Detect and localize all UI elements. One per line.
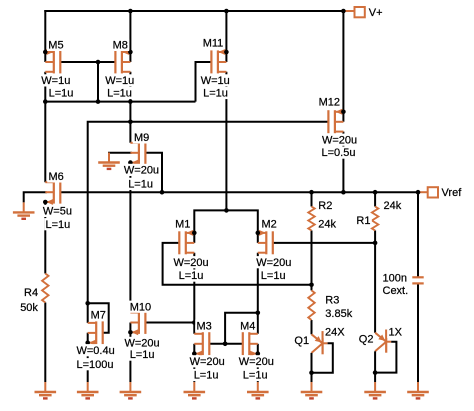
transistor M10 <box>130 311 145 335</box>
svg-text:M10: M10 <box>130 301 151 313</box>
transistor M1 <box>179 230 194 254</box>
wire M9 source <box>129 163 131 313</box>
svg-text:L=1u: L=1u <box>46 219 71 231</box>
wire M6 drain <box>44 102 46 183</box>
label M1 W/L <box>172 256 210 282</box>
svg-text:M5: M5 <box>48 40 63 52</box>
junction tail <box>224 208 229 213</box>
svg-text:W=20u: W=20u <box>190 356 225 368</box>
wire M10 tie <box>129 323 131 333</box>
svg-text:L=1u: L=1u <box>49 88 74 100</box>
label M12 <box>317 96 341 109</box>
wire M12 source <box>342 11 344 122</box>
wire M6 bulk <box>24 192 47 202</box>
svg-text:1X: 1X <box>389 327 403 339</box>
svg-text:Cext.: Cext. <box>383 285 409 297</box>
transistor M2 <box>258 230 273 254</box>
svg-text:R4: R4 <box>24 287 38 299</box>
junction wire1 tap <box>96 99 101 104</box>
label M10 W/L <box>123 337 161 361</box>
svg-text:M11: M11 <box>203 38 224 50</box>
wire M9 gate <box>145 153 162 192</box>
wire M5-M8 gates <box>60 61 115 63</box>
svg-text:W=20u: W=20u <box>125 338 160 350</box>
svg-text:M9: M9 <box>134 132 149 144</box>
junction wire1 M8 <box>128 99 133 104</box>
wire M2 gate <box>273 242 375 244</box>
svg-text:Vref: Vref <box>442 187 463 199</box>
junction M10 gate <box>192 320 197 325</box>
junction M9 source <box>128 160 133 165</box>
resistor R4 <box>42 274 48 303</box>
label M6 <box>47 170 65 183</box>
label M7 W/L <box>75 344 116 371</box>
label M5 W/L <box>40 74 75 99</box>
junction Vref R1 <box>373 190 378 195</box>
junction wire1 M5 <box>43 99 48 104</box>
wire M4 source <box>257 354 259 382</box>
transistor M4 <box>243 332 258 356</box>
transistor M5 <box>45 49 60 73</box>
wire M11 drain / tail <box>225 72 227 211</box>
label M6 W/L <box>42 205 74 231</box>
ground M6 bulk <box>13 202 35 218</box>
label Cext <box>381 272 409 297</box>
ground M4 <box>247 382 269 398</box>
ground R4 <box>35 382 57 398</box>
svg-text:M1: M1 <box>175 219 190 231</box>
terminal V+ <box>343 7 364 17</box>
wire M3-M4 gates link <box>225 313 258 344</box>
svg-text:3.85k: 3.85k <box>325 308 352 320</box>
ground Cext <box>407 382 429 398</box>
junction M6 source <box>43 200 48 205</box>
label M5 <box>47 39 65 52</box>
wire M5 drain <box>44 72 46 102</box>
junction M2 gate R1 <box>373 241 378 246</box>
junction M8 source <box>128 50 133 55</box>
svg-text:L=1u: L=1u <box>130 349 155 361</box>
wire M4 gate <box>225 343 243 345</box>
junction M10 source <box>128 330 133 335</box>
wire M7 gate loop <box>88 303 109 332</box>
svg-text:L=0.5u: L=0.5u <box>322 147 356 159</box>
junction M11 source <box>224 50 229 55</box>
label Vref <box>442 187 463 199</box>
svg-text:L=1u: L=1u <box>194 370 219 382</box>
terminal Vref <box>418 187 438 197</box>
wire Cext bottom <box>417 283 419 382</box>
svg-text:M2: M2 <box>262 219 277 231</box>
label M10 <box>128 301 152 314</box>
wire M7 tie <box>87 333 89 343</box>
wire R4 bottom <box>44 303 46 383</box>
wire M1 gate <box>163 243 312 285</box>
svg-text:W=20u: W=20u <box>239 356 274 368</box>
svg-text:W=1u: W=1u <box>105 75 134 87</box>
label M9 W/L <box>123 164 161 191</box>
label M3 W/L <box>188 355 226 381</box>
ground M10 <box>120 382 142 398</box>
svg-text:100n: 100n <box>383 273 407 285</box>
transistor M11 <box>211 49 226 73</box>
wire tail / M1 M2 sources <box>194 210 257 243</box>
wire M10 source <box>129 332 131 382</box>
svg-text:L=1u: L=1u <box>261 270 286 282</box>
junction M8 source rail <box>128 9 133 14</box>
ground M3 <box>184 382 206 398</box>
wire M9 bulk <box>109 153 132 155</box>
svg-text:W=0.4u: W=0.4u <box>77 345 115 357</box>
wire R1-Q2 <box>374 231 376 333</box>
resistor R2 <box>308 207 314 231</box>
wire Q2 ground <box>374 373 376 382</box>
junction M1 gate R3 <box>309 283 314 288</box>
ground Q2 <box>364 382 386 398</box>
svg-text:M6: M6 <box>49 171 64 183</box>
wire M11 source <box>225 11 227 62</box>
junction wire2 M9 <box>128 120 133 125</box>
wire M3 source <box>193 354 195 382</box>
wire Q1 ground <box>311 373 313 382</box>
wire M7 source <box>87 343 89 382</box>
svg-text:L=1u: L=1u <box>107 88 132 100</box>
label R2 <box>317 199 337 230</box>
junction M1 source <box>192 231 197 236</box>
svg-text:L=1u: L=1u <box>243 370 268 382</box>
svg-text:Q1: Q1 <box>294 335 309 347</box>
wire R3-Q1 <box>311 320 313 334</box>
svg-text:R1: R1 <box>356 215 370 227</box>
label M9 <box>133 131 151 144</box>
label M2 <box>260 218 278 231</box>
junction M11 source rail <box>224 9 229 14</box>
wire M1 drain <box>193 253 195 334</box>
svg-text:M4: M4 <box>240 320 255 332</box>
svg-text:24k: 24k <box>318 219 336 231</box>
junction Vref M9 gate <box>160 190 165 195</box>
wire R2 top <box>311 192 313 206</box>
junction M7 source <box>85 340 90 345</box>
junction M3-M4 gates <box>223 342 228 347</box>
junction V+ rail <box>341 9 346 14</box>
svg-text:W=20u: W=20u <box>322 134 357 146</box>
svg-text:W=20u: W=20u <box>124 165 159 177</box>
svg-text:M12: M12 <box>319 96 340 108</box>
wire M4 tie <box>257 344 259 354</box>
svg-text:W=5u: W=5u <box>43 206 72 218</box>
svg-text:W=20u: W=20u <box>256 257 291 269</box>
svg-text:50k: 50k <box>20 302 38 314</box>
label R3 <box>324 294 354 320</box>
wire R1 top <box>374 192 376 206</box>
wire Vref rail <box>60 191 418 193</box>
ground M9 bulk <box>98 153 120 169</box>
label V+ <box>369 7 383 19</box>
wire R2-R3 <box>311 231 313 291</box>
label M3 <box>195 320 213 333</box>
wire M10 gate <box>145 322 194 324</box>
node wire2 / M7 drain <box>88 122 329 323</box>
resistor R1 <box>372 207 378 231</box>
wire M11 gate <box>196 62 212 102</box>
wire M8 drain <box>129 72 131 143</box>
transistor M7 <box>88 321 103 345</box>
label M11 W/L <box>199 74 231 99</box>
svg-text:L=1u: L=1u <box>128 179 153 191</box>
label M8 W/L <box>104 74 136 99</box>
label M4 <box>239 320 257 333</box>
junction gate tap <box>96 60 101 65</box>
svg-text:W=1u: W=1u <box>41 75 70 87</box>
svg-text:24X: 24X <box>325 327 345 339</box>
label Q2 <box>358 326 404 346</box>
ground Q1 <box>301 382 323 398</box>
svg-text:L=100u: L=100u <box>77 359 114 371</box>
svg-text:V+: V+ <box>369 7 383 19</box>
wire M3 tie <box>193 344 195 354</box>
wire M8 source <box>129 11 131 62</box>
label M8 <box>111 39 129 52</box>
wire M2 drain <box>257 253 259 334</box>
junction M4 source <box>255 351 260 356</box>
junction Vref M12 <box>341 190 346 195</box>
wire gate tap <box>97 62 99 102</box>
wire V+ rail <box>44 10 343 12</box>
junction Vref R2 <box>309 190 314 195</box>
junction M2 source <box>255 231 260 236</box>
transistor M12 <box>328 109 343 133</box>
wire Cext branch <box>417 192 419 277</box>
svg-text:L=1u: L=1u <box>179 270 204 282</box>
svg-text:W=20u: W=20u <box>174 257 209 269</box>
label R1 <box>355 199 403 227</box>
node wire1 <box>45 101 195 103</box>
resistor R3 <box>308 290 314 320</box>
transistor M9 <box>130 141 145 165</box>
wire M6 source <box>44 202 46 274</box>
transistor Q1 <box>309 331 333 375</box>
ground M7 <box>77 382 99 398</box>
label M7 <box>89 309 107 322</box>
transistor Q2 <box>373 330 397 375</box>
svg-text:L=1u: L=1u <box>203 88 228 100</box>
transistor M8 <box>115 49 130 73</box>
junction M7 loop <box>85 301 90 306</box>
label M2 W/L <box>255 256 293 282</box>
svg-text:24k: 24k <box>384 200 402 212</box>
label M4 W/L <box>237 355 275 381</box>
junction M3 source <box>192 351 197 356</box>
junction Vref Cext <box>416 190 421 195</box>
transistor M3 <box>194 332 209 356</box>
junction M12 source <box>341 110 346 115</box>
svg-text:M7: M7 <box>91 310 106 322</box>
wire M12 drain <box>342 132 344 193</box>
capacitor Cext <box>412 277 423 283</box>
svg-text:Q2: Q2 <box>359 334 374 346</box>
wire M3 gate <box>209 343 225 345</box>
label M12 W/L <box>320 134 358 160</box>
wire M5 source <box>44 10 46 62</box>
label R4 <box>19 287 40 315</box>
label M1 <box>174 218 192 231</box>
svg-text:W=1u: W=1u <box>201 75 230 87</box>
junction M5 source <box>43 50 48 55</box>
svg-text:R2: R2 <box>318 200 332 212</box>
transistor M6 <box>45 181 60 205</box>
label M11 <box>201 37 224 50</box>
junction M2 drain <box>255 311 260 316</box>
svg-text:M8: M8 <box>113 40 128 52</box>
svg-text:M3: M3 <box>197 320 212 332</box>
svg-text:R3: R3 <box>325 295 339 307</box>
label Q1 <box>293 326 346 347</box>
